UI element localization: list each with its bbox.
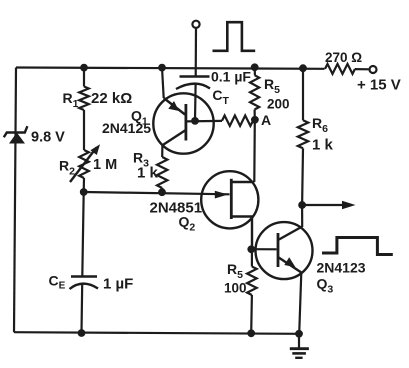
- svg-text:+ 15 V: + 15 V: [357, 77, 401, 94]
- svg-text:0.1 µF: 0.1 µF: [211, 69, 251, 85]
- svg-text:1 µF: 1 µF: [103, 276, 133, 293]
- svg-text:200: 200: [267, 97, 290, 112]
- svg-text:2N4125: 2N4125: [102, 120, 151, 136]
- svg-text:2N4123: 2N4123: [317, 260, 366, 276]
- svg-text:1 k: 1 k: [137, 165, 159, 182]
- svg-text:1 k: 1 k: [312, 137, 334, 154]
- svg-text:1 M: 1 M: [93, 157, 117, 173]
- svg-text:100: 100: [224, 281, 247, 296]
- svg-text:270 Ω: 270 Ω: [325, 50, 362, 65]
- svg-text:22 kΩ: 22 kΩ: [91, 90, 132, 107]
- svg-text:2N4851: 2N4851: [150, 200, 203, 217]
- svg-text:A: A: [261, 112, 271, 128]
- svg-text:9.8 V: 9.8 V: [31, 130, 65, 146]
